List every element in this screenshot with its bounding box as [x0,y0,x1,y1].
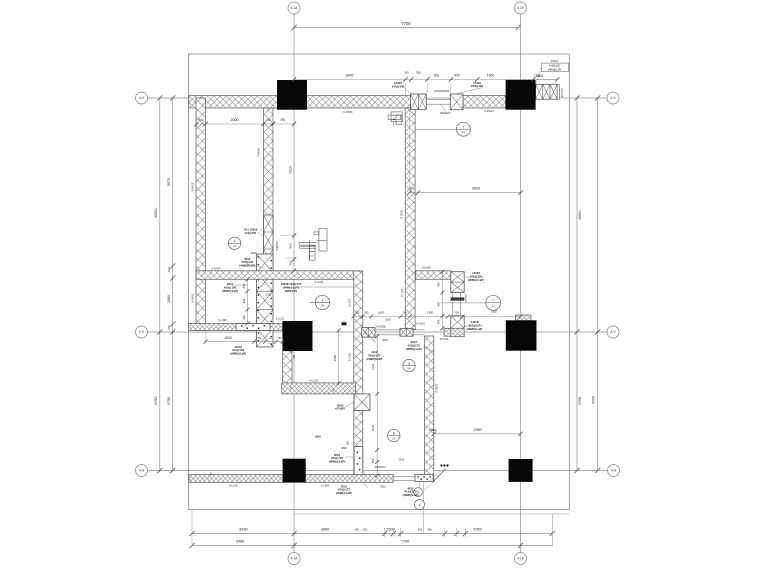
dim col 4320 x=294 [292,233,296,237]
svg-text:#10@150: #10@150 [245,231,257,235]
column C6 bottom-right (black) [509,459,533,482]
svg-text:6-RS01: 6-RS01 [343,110,353,114]
wall top-right pier 15021 [536,84,558,99]
axis bubble right 4-G [608,465,620,477]
svg-text:4-G: 4-G [611,469,617,473]
svg-text:7: 7 [462,125,464,129]
svg-text:1300: 1300 [534,74,540,78]
svg-text:300: 300 [167,325,171,330]
svg-text:400: 400 [418,528,423,532]
svg-text:2016: 2016 [385,317,391,321]
column C3 mid-left (black) [283,321,313,351]
wall mid vertical pier section [264,215,274,266]
svg-text:6: 6 [393,432,395,436]
svg-text:6-LU03: 6-LU03 [309,378,318,382]
axis bubble bottom 4-1F [515,553,527,565]
svg-text:(#NW@LaP): (#NW@LaP) [222,289,238,293]
svg-text:400: 400 [288,260,292,265]
svg-text:4-1F: 4-1F [517,557,524,561]
strip2 dotted pier [236,324,270,331]
axis bubble right 4-X [607,92,619,104]
svg-text:6-LK03: 6-LK03 [349,352,352,361]
svg-text:5970: 5970 [167,178,171,186]
left dimension column inner [172,98,174,471]
pier column right of strip1: upper block [451,272,464,293]
door swing [362,329,376,343]
svg-text:7: 7 [492,299,494,303]
wall 6-LX15 bottom strip [189,475,393,483]
wall 6-LK03 strip1 right [416,271,451,280]
wall mid vertical lower pier [257,254,274,347]
svg-text:400: 400 [371,458,375,463]
svg-text:NW#@50: NW#@50 [285,289,297,293]
axis bubble top 4-1F [515,2,527,14]
svg-text:1300: 1300 [427,311,434,315]
callout 4 bottom [414,488,423,497]
riser detail symbol top right [388,112,402,125]
svg-text:4700: 4700 [153,396,158,406]
svg-text:300: 300 [266,118,271,122]
svg-text:7700: 7700 [401,539,410,544]
axis bubble top 4-1A [288,2,300,14]
svg-text:1000: 1000 [378,311,385,315]
svg-text:52.450: 52.450 [560,88,564,97]
svg-text:#10@100: #10@100 [549,65,560,68]
svg-text:6-LX01: 6-LX01 [321,484,330,488]
svg-text:(#NW@LaP): (#NW@LaP) [329,460,345,464]
column2 wall fringes [515,315,531,321]
pier P1 top wall [411,94,427,110]
wall 6-LU03 strip4 [282,383,356,394]
svg-text:400: 400 [437,319,441,324]
svg-text:4-1A: 4-1A [291,557,299,561]
svg-text:1580: 1580 [167,295,171,303]
svg-text:4-X: 4-X [611,96,617,100]
dim row 2950 [434,433,521,435]
svg-text:550: 550 [416,71,421,75]
svg-text:8000: 8000 [153,208,158,218]
svg-text:#WM1520: #WM1520 [375,467,386,469]
svg-text:6-LK03: 6-LK03 [416,322,425,326]
svg-text:4PW262294: 4PW262294 [434,89,449,93]
svg-text:400: 400 [242,283,246,288]
svg-text:300: 300 [432,428,437,432]
grid axis horizontal 4-V y=332 [148,331,608,333]
wall 6-RS01 top strip right [463,96,506,109]
svg-text:6-LK03: 6-LK03 [422,266,431,270]
svg-text:6-LU02: 6-LU02 [276,318,285,321]
svg-text:6-LK02: 6-LK02 [191,182,195,191]
wall 6-LK03 mid vertical W6 [354,271,363,476]
left dimension column outer 8000/4700 [159,98,161,471]
svg-text:300: 300 [410,187,415,191]
svg-text:3480: 3480 [236,539,245,544]
svg-text:300: 300 [429,429,434,432]
dim col 450/880/400 [442,272,444,329]
svg-text:2950: 2950 [473,527,482,532]
wall 6-RG01 right vertical W9 [425,336,434,482]
svg-text:1: 1 [321,299,323,303]
svg-text:1920: 1920 [491,310,497,314]
svg-text:2600: 2600 [230,118,238,122]
svg-text:5-RG12: 5-RG12 [484,109,494,113]
lintel bar [451,298,464,301]
dark tick marks [342,322,347,325]
callout 3 lower [403,359,415,371]
callout 6 [388,429,400,441]
wall 6-LU02 strip2 [188,324,282,331]
leader lines [232,284,247,286]
svg-text:(#NW@LaP): (#NW@LaP) [366,357,382,361]
svg-text:300: 300 [356,312,361,315]
svg-text:7700: 7700 [401,21,411,26]
svg-text:6-LK03: 6-LK03 [349,298,352,307]
svg-text:3018: 3018 [382,338,388,342]
svg-text:300: 300 [427,528,432,532]
wall strip3 pier A [400,328,413,336]
bottom dimension row 2 [192,545,552,547]
svg-text:4700: 4700 [166,396,171,405]
grid axis vertical 4-1A x=294 [293,14,295,553]
svg-text:PW0E20: PW0E20 [440,111,451,115]
svg-text:6-RG01: 6-RG01 [436,383,439,392]
grid axis horizontal 4-G y=470.5 [148,470,609,472]
svg-text:1900: 1900 [333,354,337,361]
wall 6-LK02 left vertical [196,98,206,331]
svg-text:3450: 3450 [239,527,248,532]
svg-text:630: 630 [242,298,246,303]
svg-text:6-LK03: 6-LK03 [401,288,404,297]
svg-text:6-LX15: 6-LX15 [229,484,238,488]
bottom strip opening [393,475,415,477]
svg-text:750: 750 [280,118,286,122]
svg-text:4-G: 4-G [139,469,145,473]
axis bubble left 4-V [136,326,148,338]
svg-text:(#NW@LaP): (#NW@LaP) [467,327,483,331]
wall 6-RG21 vertical W7 [405,108,415,329]
extension lines bottom [191,510,193,547]
svg-text:#N@200: #N@200 [277,241,279,251]
svg-text:(#NW@LaP): (#NW@LaP) [406,347,422,351]
svg-text:300: 300 [365,312,370,315]
column C4 mid-right (black) [506,320,537,350]
svg-text:(#NW@LaP): (#NW@LaP) [230,352,246,356]
wall strip3 small block [362,328,376,338]
axis bubble right 4-V [607,326,619,338]
svg-text:500: 500 [455,311,460,315]
axis bubble left 4-G [136,465,148,477]
dim row top-left room [197,123,295,125]
callout 7 top [456,122,470,136]
svg-text:1900: 1900 [487,74,495,78]
svg-text:400: 400 [167,267,171,272]
svg-text:15021: 15021 [551,59,559,63]
svg-text:1920: 1920 [371,424,375,431]
svg-text:800: 800 [288,243,292,248]
svg-text:4700: 4700 [577,396,582,405]
bottom dimension row 1 [192,533,552,535]
svg-text:3: 3 [408,362,410,366]
svg-text:1650: 1650 [224,336,232,340]
wall W8 below column C3 [283,351,292,384]
svg-text:6-RG21: 6-RG21 [401,209,404,218]
svg-text:3805: 3805 [345,74,353,78]
pier lower block [451,316,464,329]
svg-text:800: 800 [434,74,440,78]
svg-text:4-1F: 4-1F [517,6,524,10]
callout 7 right [486,295,501,310]
wall 6-RS01 top strip left [189,96,411,109]
callout 1 [315,295,329,309]
svg-text:1430: 1430 [371,363,375,370]
svg-text:4: 4 [419,503,421,507]
svg-text:HW1528: HW1528 [377,326,387,329]
drawing boundary [189,54,570,510]
svg-text:4320: 4320 [288,166,292,174]
pier P2 top wall [450,94,463,110]
svg-text:300: 300 [347,440,350,445]
svg-text:300: 300 [403,312,408,315]
riser detail symbol center [299,229,327,261]
svg-text:3: 3 [234,240,236,244]
boxed note 15021 [541,63,568,72]
wall 6-RG01 mid vertical upper [264,108,274,254]
svg-text:400: 400 [242,315,246,320]
wall 6-LK03 strip1 left [196,271,361,280]
column C2 top-right (black) [506,80,536,110]
svg-text:3600: 3600 [472,187,480,191]
svg-text:450: 450 [437,282,441,287]
svg-text:(#NW@LaP): (#NW@LaP) [336,491,352,495]
grid axis horizontal 4-X y=98 [148,97,608,99]
bottom partial line [294,513,569,515]
svg-text:750: 750 [257,337,262,340]
column C1 top-left (black) [277,80,307,110]
svg-text:3080: 3080 [321,527,330,532]
svg-text:300: 300 [354,528,359,532]
svg-text:3018: 3018 [251,251,257,255]
svg-text:3016: 3016 [341,446,347,450]
svg-text:2016: 2016 [398,457,404,461]
svg-text:4-V: 4-V [611,330,617,334]
svg-text:190: 190 [404,71,409,75]
wall W6 lower dotted pier [354,447,363,476]
svg-text:1500: 1500 [386,527,395,532]
svg-text:2016: 2016 [266,292,272,296]
svg-text:250: 250 [363,528,368,532]
svg-text:900: 900 [454,74,460,78]
top wall window opening [426,99,450,101]
svg-text:3016: 3016 [380,484,386,488]
svg-text:4-1A: 4-1A [291,6,299,10]
svg-text:4700: 4700 [592,396,596,404]
dim row 1650/750/400/750 [206,341,283,343]
svg-text:4-X: 4-X [139,96,145,100]
dim 1300 top right [536,79,558,81]
dim row top 3805/... [294,79,557,81]
dim row 3600 [409,192,520,194]
svg-text:300: 300 [199,118,204,122]
axis bubble bottom 4-1A [288,553,300,565]
wall strip3 hatch right [444,328,463,336]
column C5 bottom-left (black) [283,459,306,483]
wall W6 pier square [354,394,370,411]
strip3 opening lines [375,329,400,331]
svg-text:2#16: 2#16 [315,435,321,439]
pier window [452,293,454,316]
svg-text:6-LK03: 6-LK03 [440,337,449,341]
diagonal wall end [433,469,445,482]
grid axis vertical 4-1F x=520.5 [520,14,522,553]
svg-text:(#NW@LaP): (#NW@LaP) [468,278,484,282]
right dimension column outer [597,98,599,471]
bottom strip dotted pier [415,475,433,482]
callout 3 [228,237,240,249]
svg-text:8000: 8000 [577,210,582,220]
dim col 1900 [338,331,340,384]
top dimension 7700 [294,27,518,29]
right dimension column inner 8000/4700 [576,98,578,471]
svg-text:880: 880 [437,301,441,306]
axis bubble left 4-X [136,92,148,104]
dim col 1430/1920/400 [376,336,378,475]
dim row 300/300/1000/300/1300/500 [354,316,521,318]
svg-text:6-LK03: 6-LK03 [315,280,324,284]
svg-text:6-LU02: 6-LU02 [218,318,227,322]
svg-text:6-LK02: 6-LK02 [191,293,195,302]
dim col 400/630/400 left room [247,279,249,323]
svg-text:750: 750 [278,337,283,340]
svg-text:6-LK03: 6-LK03 [212,266,221,270]
svg-text:#W#363: #W#363 [466,293,468,302]
svg-text:4-V: 4-V [139,330,145,334]
svg-text:400: 400 [293,354,296,359]
svg-text:6-RG01: 6-RG01 [257,147,261,157]
svg-text:#10@100: #10@100 [392,84,405,88]
svg-text:(#NW@LaP): (#NW@LaP) [548,68,562,71]
svg-text:(#NW@LaP): (#NW@LaP) [403,493,419,497]
svg-text:2950: 2950 [473,428,481,432]
